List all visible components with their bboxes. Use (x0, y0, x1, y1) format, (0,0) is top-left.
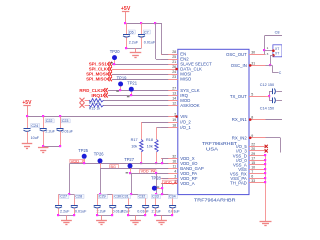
U1 pin 19 I/O_2 stub (161, 118, 191, 125)
svg-text:C33: C33 (152, 195, 159, 199)
junction riser pair4 top (155, 172, 157, 174)
U1 pin 13 IRQ stub (161, 91, 189, 98)
U1 pin 3 VDD_RF stub (161, 175, 198, 182)
svg-text:C: C (279, 71, 282, 75)
svg-text:C6: C6 (129, 30, 134, 34)
red dot pin 2 (175, 115, 178, 118)
wire RFID_CLK2 (108, 90, 168, 92)
svg-text:TP25: TP25 (78, 148, 89, 153)
net label BG (110, 165, 119, 169)
svg-text:R15 1k: R15 1k (89, 106, 101, 110)
svg-text:XT: XT (275, 52, 279, 56)
wire bottom rail pair C27/C28 (59, 215, 75, 217)
svg-text:C8: C8 (275, 30, 280, 34)
wire BAND_GAP rail (100, 168, 168, 170)
ground (VSS bus) (260, 222, 272, 226)
U1 pin 29 VSS_D stub (233, 152, 266, 159)
svg-text:0.01uF: 0.01uF (61, 129, 73, 133)
wire bottom rail pair C31/C32 (129, 215, 146, 217)
red dot crystal pin3 (272, 54, 275, 57)
wire SPI_CLK (112, 69, 168, 71)
test point TP20 (110, 49, 121, 64)
wire riser pair4a (156, 173, 158, 194)
svg-text:18: 18 (172, 123, 176, 127)
svg-text:SPI_MISO: SPI_MISO (86, 77, 107, 82)
pin number 1 of TP20 (110, 62, 113, 65)
wire VDD_X jog from pin 32 (163, 158, 169, 163)
junction C32 bottom (144, 214, 146, 216)
no-connect X pin 20 (265, 149, 268, 152)
junction rail at C24 (26, 115, 28, 117)
test point TP25 (78, 148, 89, 163)
junction crystal pin1 node (263, 49, 265, 51)
junction C22 bottom (42, 145, 44, 147)
U1 pin 25 EN2 stub (161, 55, 189, 62)
junction riser C33 pair (155, 193, 157, 195)
svg-text:TP27: TP27 (124, 157, 135, 162)
svg-text:RX_IN1: RX_IN1 (232, 117, 248, 122)
capacitor C28 0.01uF (71, 194, 87, 215)
net label IRQ1 (91, 93, 107, 98)
wire riser pair2 (100, 168, 102, 194)
svg-text:3: 3 (174, 175, 176, 179)
junction C6 bottom (125, 47, 127, 49)
wire RX_IN1 ext (266, 119, 283, 121)
power +5V (left) (22, 100, 32, 117)
wire OSC_IN continues (266, 65, 282, 75)
U1 pin 21 SLAVE SELECT stub (161, 60, 212, 67)
junction VSS at y169.2 (264, 168, 266, 170)
svg-text:USA: USA (206, 146, 219, 151)
svg-text:0.01uF: 0.01uF (75, 210, 87, 214)
U1 pin 30 OSC_OUT stub (226, 50, 265, 57)
U1 pin 23 MISO stub (161, 75, 192, 82)
capacitor C32 0.01uF (137, 194, 149, 215)
ground (under C27/C28) (61, 215, 72, 224)
svg-text:2.2uF: 2.2uF (121, 210, 131, 214)
svg-text:21: 21 (172, 60, 176, 64)
wire R14 to MOD (104, 100, 169, 102)
junction top rail at C7 (140, 22, 142, 24)
svg-text:C23: C23 (62, 119, 69, 123)
svg-text:19: 19 (172, 118, 176, 122)
IC U1 TRF7964ARHBR body (178, 49, 249, 203)
capacitor C29 2.2uF (94, 194, 108, 215)
svg-text:TRF7964ARHBR: TRF7964ARHBR (194, 197, 236, 203)
wire VDD_A riser pair4b (162, 184, 164, 195)
svg-text:23: 23 (172, 75, 176, 79)
wire top rail (126, 23, 162, 25)
svg-text:OSC_IN: OSC_IN (231, 63, 247, 68)
wire EN riser (162, 23, 169, 55)
crystal Y1 (267, 45, 282, 57)
test point TP28 (151, 176, 162, 191)
svg-text:C34: C34 (169, 195, 176, 199)
junction C34 bottom (171, 214, 173, 216)
svg-text:C12 150: C12 150 (260, 83, 274, 87)
power +5V (top) (121, 6, 131, 23)
svg-text:VDD_A: VDD_A (180, 181, 194, 186)
U1 pin 9 RX_IN2 stub (232, 134, 266, 141)
junction top rail at C6 (124, 22, 126, 24)
svg-text:C32: C32 (139, 195, 146, 199)
capacitor C24 (24, 117, 40, 144)
svg-text:2.2uF: 2.2uF (60, 210, 70, 214)
U1 pin 10 VSS stub (238, 165, 265, 172)
junction VSS at y164.7 (264, 163, 266, 165)
wire C22-C23 bottoms join (43, 146, 60, 148)
U1 pin 31 OSC_IN stub (231, 62, 266, 69)
U1 pin 11 BAND_GAP stub (161, 164, 204, 171)
junction VSS at y160.3 (264, 159, 266, 161)
U1 pin 17 I/O_0 stub (236, 156, 265, 163)
wire +5V rail to VIN (27, 116, 168, 118)
wire top rail pair C31/C32 (129, 194, 146, 196)
svg-text:28: 28 (172, 50, 176, 54)
junction C29 bottom (96, 214, 98, 216)
svg-text:R14 1k: R14 1k (89, 101, 101, 105)
svg-text:24: 24 (172, 70, 176, 74)
junction C33 bottom (154, 214, 156, 216)
svg-text:17: 17 (251, 156, 255, 160)
svg-text:15: 15 (251, 161, 255, 165)
wire VSS bus vertical (265, 156, 267, 221)
U1 pin 1 VDD_A stub (161, 180, 195, 187)
junction TP28 (161, 187, 163, 189)
U1 pin 27 SYS_CLK stub (161, 86, 200, 93)
junction riser C33 pair (161, 193, 163, 195)
svg-text:10k: 10k (147, 145, 153, 149)
wire SPI_MISO (112, 79, 168, 81)
pin number 1 of TP28 (157, 186, 160, 189)
wire bottom rail pair C33/C34 (156, 215, 173, 217)
svg-text:11: 11 (172, 164, 176, 168)
wire crystal pin3 to OSC_IN (270, 55, 273, 65)
capacitor C23 (57, 117, 74, 147)
pin number 1 of TP19 (116, 90, 119, 93)
junction C27 bottom (57, 214, 59, 216)
pin number 1 of TP21 (127, 95, 130, 98)
junction riser C29 pair (99, 193, 101, 195)
svg-text:25: 25 (172, 55, 176, 59)
junction TP21 (130, 94, 132, 96)
svg-text:27: 27 (172, 86, 176, 90)
wire top rail pair C33/C34 (156, 194, 173, 196)
wire R17 bottom (141, 152, 143, 163)
svg-text:R18: R18 (146, 138, 153, 142)
svg-text:0.01uF: 0.01uF (168, 210, 180, 214)
wire riser pair3 (131, 173, 133, 194)
no-connect X R15 (80, 103, 85, 108)
junction R18 on VDD rail (155, 162, 157, 164)
svg-text:6: 6 (251, 174, 253, 178)
red dot crystal pin1 (272, 49, 275, 52)
ground (under C33/C34) (156, 215, 167, 224)
svg-text:VDD_X: VDD_X (71, 159, 85, 163)
svg-text:C7: C7 (144, 30, 149, 34)
resistor R17 (131, 138, 143, 152)
wire R18 bottom (156, 152, 158, 163)
wire SPI_MOSI (112, 74, 168, 76)
junction riser C31 pair (130, 193, 132, 195)
wire VDD_X/VDD_I/O rail (70, 163, 169, 165)
junction TP20 (113, 63, 115, 65)
junction C30 bottom (111, 214, 113, 216)
svg-text:C27: C27 (60, 195, 67, 199)
ground (under C6/C7) (130, 48, 142, 58)
pin number 1 of TP27 (126, 171, 129, 174)
svg-text:TP20: TP20 (110, 49, 121, 54)
svg-text:IRQ1: IRQ1 (91, 93, 103, 98)
svg-text:7: 7 (251, 170, 253, 174)
wire top rail pair C27/C28 (59, 194, 75, 196)
test point TP21 (127, 80, 138, 95)
svg-text:10k: 10k (131, 145, 137, 149)
junction TP25 (83, 162, 85, 164)
svg-text:R17: R17 (131, 138, 138, 142)
svg-text:C30: C30 (114, 195, 121, 199)
net label SPI_CLK (89, 67, 112, 72)
wire TX_OUT ext (266, 96, 270, 98)
svg-text:VIN: VIN (180, 114, 187, 119)
svg-text:13: 13 (172, 91, 176, 95)
U1 pin 12 ASK/OOK stub (161, 101, 200, 108)
wire I/O_2 from R17 (141, 122, 168, 140)
net label VDD_X (70, 159, 85, 163)
svg-text:16: 16 (172, 159, 176, 163)
net label SPI_MOSI (86, 72, 112, 77)
junction VSS at y173.7 (264, 172, 266, 174)
svg-text:2.2uF: 2.2uF (45, 129, 55, 133)
svg-text:XT: XT (275, 47, 279, 51)
U1 pin 6 VSS_PA stub (230, 174, 265, 181)
U1 pin 24 MOSI stub (161, 70, 191, 77)
net label SPI_SS1 (89, 62, 112, 67)
svg-text:20: 20 (251, 147, 255, 151)
junction TX_OUT (268, 95, 270, 97)
junction VSS at y178.2 (264, 177, 266, 179)
capacitor C30 0.01uF (109, 194, 125, 215)
wire EN2 riser (156, 23, 169, 60)
svg-text:10: 10 (251, 165, 255, 169)
svg-text:C29: C29 (99, 195, 106, 199)
svg-text:I/O_1: I/O_1 (180, 125, 191, 130)
svg-text:14: 14 (172, 96, 176, 100)
svg-text:TX_OUT: TX_OUT (230, 94, 247, 99)
U1 pin 28 EN stub (161, 50, 186, 57)
U1 pin 20 I/O_3 stub (236, 147, 265, 154)
no-connect X R14 (80, 98, 85, 103)
junction TP27 (129, 172, 131, 174)
test point TP27 (124, 157, 135, 173)
resistor R18 (146, 138, 158, 152)
no-connect X pin 22 (265, 145, 268, 148)
wire IRQ1 (108, 95, 168, 97)
ground (under C29/C30) (96, 215, 107, 224)
ground (under C31/C32) (130, 215, 141, 224)
wire RX_IN2 ext (266, 138, 281, 153)
svg-text:32: 32 (172, 154, 176, 158)
wire OSC_OUT to crystal (265, 51, 274, 55)
U1 pin 33 TH_PAD stub (230, 179, 265, 186)
svg-text:C22: C22 (46, 119, 53, 123)
svg-text:TP19: TP19 (117, 75, 128, 80)
U1 pin 4 VDD_PA stub (161, 170, 197, 177)
capacitor C14 150 (260, 97, 282, 111)
svg-text:TP21: TP21 (127, 80, 138, 85)
U1 pin 2 VIN stub (161, 113, 187, 120)
ground (under C22/C23) (38, 147, 49, 153)
net label VDD_PA (140, 170, 156, 174)
capacitor C22 (40, 117, 56, 147)
svg-text:ASK/OOK: ASK/OOK (180, 103, 199, 108)
svg-text:TP28: TP28 (151, 176, 162, 181)
junction rail at C22 (42, 115, 44, 117)
resistor R14 (85, 99, 104, 106)
capacitor C6 (123, 23, 139, 48)
svg-text:29: 29 (251, 152, 255, 156)
net label RFID_CLK2 (79, 88, 107, 93)
svg-text:5: 5 (251, 93, 253, 97)
svg-text:0.01uF: 0.01uF (137, 210, 149, 214)
svg-text:C31: C31 (122, 195, 129, 199)
U1 pin 16 VDD_I/O stub (161, 159, 198, 166)
U1 pin 22 I/O_5 stub (236, 143, 265, 150)
red dot pin 26 (175, 68, 178, 71)
junction VSS at y155.8 (264, 154, 266, 156)
junction riser C27 pair (68, 193, 70, 195)
test point TP26 (94, 152, 105, 169)
U1 pin 5 TX_OUT stub (230, 93, 266, 100)
capacitor C27 2.2uF (55, 194, 70, 215)
capacitor C31 2.2uF (121, 194, 132, 215)
junction rail at C23 (59, 115, 61, 117)
U1 pin 26 DATA_CLK stub (161, 65, 202, 72)
wire I/O_1 from R18 (157, 127, 169, 139)
svg-text:10uF: 10uF (31, 136, 40, 140)
svg-text:C28: C28 (75, 195, 82, 199)
svg-text:0.01uF: 0.01uF (144, 41, 156, 45)
junction TP19 (119, 89, 121, 91)
svg-text:MISO: MISO (180, 77, 192, 82)
capacitor C34 0.01uF (168, 194, 180, 215)
capacitor C8 wire (265, 30, 283, 50)
svg-text:22: 22 (251, 143, 255, 147)
junction VSS at y182.7 (264, 181, 266, 183)
svg-text:2.2uF: 2.2uF (129, 41, 139, 45)
capacitor C33 2.2uF (151, 194, 161, 215)
svg-text:33: 33 (251, 179, 255, 183)
svg-text:2.2uF: 2.2uF (97, 210, 107, 214)
svg-text:RX_IN2: RX_IN2 (232, 135, 248, 140)
U1 pin 8 RX_IN1 stub (232, 116, 266, 123)
svg-text:1: 1 (267, 46, 269, 50)
junction pin32 jog (161, 162, 163, 164)
capacitor C7 (138, 23, 156, 48)
ground (under C24) (22, 144, 33, 149)
U1 pin 7 VSS_RX stub (230, 170, 266, 177)
svg-text:3: 3 (267, 52, 269, 56)
junction C28 bottom (73, 214, 75, 216)
junction C31 bottom (127, 214, 129, 216)
U1 pin 15 VSS_A stub (233, 161, 266, 168)
capacitor C12 150 (260, 83, 282, 97)
svg-text:4: 4 (174, 170, 176, 174)
svg-text:OSC_OUT: OSC_OUT (226, 52, 247, 57)
wire SPI_SS1 (112, 64, 168, 66)
wire riser pair1 (69, 163, 71, 194)
junction C23 bottom (59, 145, 61, 147)
net label SPI_MISO (86, 77, 112, 82)
U1 pin 18 I/O_1 stub (161, 123, 191, 130)
test point TP19 (117, 75, 128, 90)
svg-text:30: 30 (251, 50, 255, 54)
wire R15 to ASK/OOK (104, 105, 169, 107)
svg-text:C14 150: C14 150 (260, 106, 274, 110)
wire C6-C7 bottoms join (127, 48, 142, 50)
wire top rail pair C29/C30 (97, 194, 113, 196)
svg-text:TP26: TP26 (94, 152, 105, 157)
U1 pin 14 MOD stub (161, 96, 190, 103)
svg-text:9: 9 (251, 134, 253, 138)
svg-text:8: 8 (251, 116, 253, 120)
wire VDD_PA rail (131, 173, 169, 175)
resistor R15 (85, 104, 104, 111)
svg-text:C24: C24 (31, 124, 38, 128)
svg-text:31: 31 (251, 62, 255, 66)
junction R17 on VDD rail (140, 162, 142, 164)
U1 pin 32 VDD_X stub (161, 154, 195, 161)
junction OSC_IN (269, 64, 271, 66)
junction top rail at EN2 riser (154, 22, 156, 24)
red dot pin 8 (249, 118, 252, 121)
wire bottom rail pair C29/C30 (97, 215, 113, 217)
svg-text:12: 12 (172, 101, 176, 105)
svg-text:TH_PAD: TH_PAD (230, 180, 247, 185)
net label VDD_A (163, 180, 177, 184)
red dot pin 9 (249, 137, 252, 140)
svg-text:2.2uF: 2.2uF (152, 210, 162, 214)
red dot pin 31 (249, 64, 252, 67)
svg-text:VDD_A: VDD_A (164, 180, 177, 184)
wire VDD_RF (162, 178, 168, 180)
